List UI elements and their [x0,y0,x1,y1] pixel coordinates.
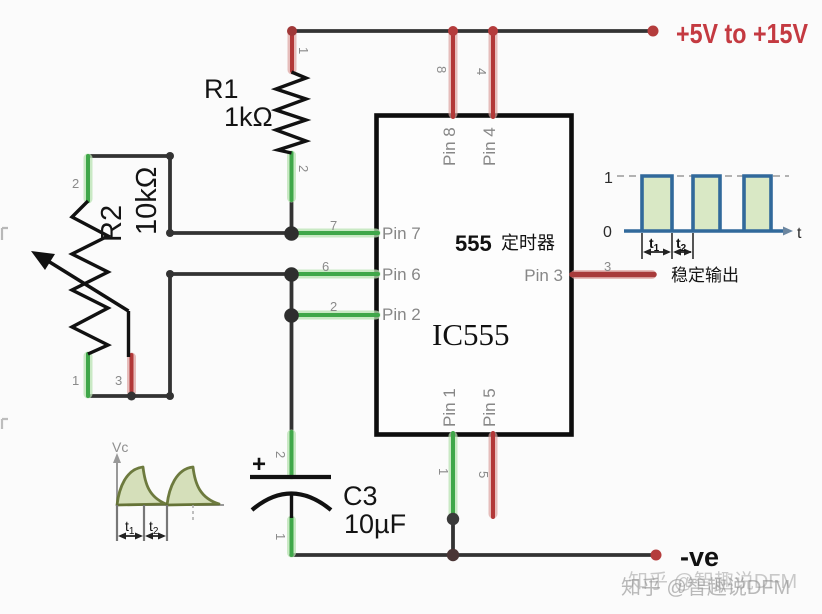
svg-text:稳定输出: 稳定输出 [671,266,739,285]
svg-text:Pin 5: Pin 5 [480,388,499,427]
node power rail R1 dot [287,26,297,36]
node B junction pin6 [284,267,299,282]
svg-text:t: t [797,225,802,242]
wire pin1 lower dark segment [451,519,455,555]
svg-text:2: 2 [273,451,288,458]
svg-text:Pin 2: Pin 2 [382,305,421,324]
svg-text:R2: R2 [96,205,128,242]
node power rail pin4 dot [488,26,498,36]
svg-text:Pin 4: Pin 4 [480,127,499,166]
svg-text:Vc: Vc [112,439,128,455]
wire R2 bottom horizontal [88,394,170,398]
label pin numbers small gray [72,47,611,540]
svg-text:1: 1 [72,373,79,388]
t1 t2 ticks [641,233,643,259]
capacitor C3 value label [343,481,406,539]
svg-text:7: 7 [330,218,337,233]
wire left vertical upper [168,156,172,233]
vertical axis [116,460,118,505]
svg-text:-ve: -ve [680,542,719,572]
wire R2 top green lead [84,156,93,201]
svg-text:C3: C3 [343,481,378,511]
wire R1 bottom green lead [287,153,296,200]
svg-text:2: 2 [72,176,79,191]
svg-text:5: 5 [476,471,491,478]
svg-text:1kΩ: 1kΩ [224,102,273,132]
t1 arrow [645,251,669,253]
wire R2 top horizontal [88,154,170,158]
chart square wave output [603,170,802,259]
wire pin5 red [489,433,498,517]
axis baseline [624,229,786,233]
wire capacitor bottom green lead [287,518,296,555]
potentiometer R2 wiper arrow [31,251,129,357]
svg-text:R1: R1 [204,74,239,104]
wire top power rail [292,29,653,33]
wire pin4 red [489,32,498,117]
ticks [116,505,118,541]
t2 arrow [147,535,164,537]
wire capacitor top green lead [287,432,296,477]
label 555 timer title [455,231,555,256]
wire pin6 row horizontal [170,272,291,276]
svg-text:1: 1 [296,47,311,54]
node junction wiper bottom [127,392,136,401]
pulse fills [642,176,672,231]
svg-text:0: 0 [603,224,612,241]
svg-text:555: 555 [455,231,492,256]
svg-text:8: 8 [434,66,449,73]
edge artifact lower [2,419,8,429]
wire pin1 green [449,433,458,519]
wire pin6 green [292,270,378,279]
svg-text:2: 2 [296,165,311,172]
wire R1 top red lead [288,33,297,71]
svg-text:定时器: 定时器 [501,233,555,253]
wire left vertical lower [168,274,172,396]
wire node2 to node3 vertical [290,274,294,315]
wire pin7 green [292,229,378,238]
node corner R2 top [166,152,174,160]
node C junction pin2 [284,308,299,323]
wire pin3 output red [572,270,654,279]
t2 arrow [675,251,691,253]
edge artifact upper [2,228,8,240]
capacitor C3 [250,451,331,518]
op-amp U1 (IC555 body outline) [377,116,572,435]
node A junction pin7 [284,226,299,241]
node ground rail endpoint dot [651,550,662,561]
chart capacitor voltage waveform [112,439,224,541]
node corner pin7 row left [166,229,174,237]
svg-text:1: 1 [436,468,451,475]
svg-text:4: 4 [474,68,489,75]
hump 2 [167,467,219,505]
svg-text:Pin 8: Pin 8 [440,127,459,166]
svg-text:IC555: IC555 [432,317,510,352]
resistor R2 value label [96,167,163,242]
wire pin2 green [292,311,378,320]
node corner R2 bottom right [166,392,174,400]
svg-text:1: 1 [604,170,613,187]
wire pin8 red [449,32,458,117]
svg-text:10kΩ: 10kΩ [131,167,163,235]
wire R2 wiper red lead [127,355,136,394]
resistor R2 (potentiometer) [72,201,108,354]
node power rail endpoint dot [648,26,659,37]
label IC pin names [382,127,563,427]
wire ground rail bottom [291,553,656,557]
node corner pin6 row left [166,270,174,278]
svg-text:+5V to +15V: +5V to +15V [676,18,808,49]
wire pin7 row horizontal [170,231,291,235]
svg-text:10µF: 10µF [344,509,406,539]
wire R2 bottom green lead [84,354,93,396]
t1 arrow [120,535,141,537]
svg-text:Pin 6: Pin 6 [382,265,421,284]
svg-text:3: 3 [604,259,611,274]
svg-text:1: 1 [273,533,288,540]
svg-text:Pin 7: Pin 7 [382,224,421,243]
dashed level line [617,175,789,177]
svg-text:2: 2 [330,299,337,314]
node junction pin1 green end [447,513,459,525]
svg-text:+: + [252,451,266,478]
resistor R1 [276,72,306,153]
svg-text:Pin 1: Pin 1 [440,388,459,427]
svg-text:6: 6 [322,259,329,274]
node power rail pin8 dot [448,26,458,36]
svg-text:知乎 @智趣说DFM: 知乎 @智趣说DFM [621,576,790,599]
node junction ground pin1 [447,549,459,561]
hump 1 [117,467,166,505]
watermark [621,570,797,599]
pulse outline [642,176,771,231]
horizontal axis [116,504,224,506]
wire R1 bottom to node1 [290,198,294,233]
svg-text:3: 3 [115,373,122,388]
wire node3 to capacitor vertical [290,315,294,462]
resistor R1 value label [204,74,273,132]
svg-text:Pin 3: Pin 3 [524,266,563,285]
